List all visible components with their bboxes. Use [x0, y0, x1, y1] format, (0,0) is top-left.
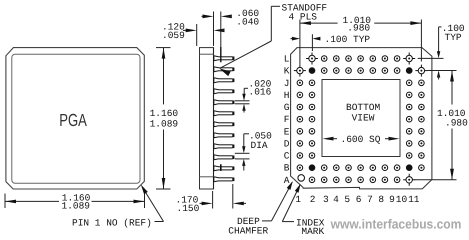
pin L9 — [394, 56, 400, 62]
pin5 bottom ext line — [235, 103, 250, 105]
arrow down to pin5 top — [242, 94, 245, 101]
svg-text:4 PLS: 4 PLS — [289, 12, 318, 23]
side view pin 6 — [214, 111, 235, 116]
pin K4 — [334, 68, 340, 74]
side view pin 2 — [214, 67, 235, 72]
side view pin 3 — [214, 78, 235, 83]
svg-text:.016: .016 — [249, 86, 272, 97]
pin F2 — [309, 116, 315, 122]
svg-text:9: 9 — [389, 194, 395, 205]
pin E1 — [297, 129, 303, 135]
seating tick on pin 11 — [220, 164, 222, 171]
pin L10 target — [403, 58, 415, 60]
top dim ext line right — [420, 20, 422, 62]
side view pin 12 — [214, 177, 235, 182]
svg-text:1.160: 1.160 — [150, 108, 179, 119]
ext line col2 — [311, 34, 313, 51]
pin F1 — [297, 116, 303, 122]
svg-text:D: D — [284, 138, 290, 149]
svg-text:B: B — [284, 163, 290, 174]
pin A2 — [309, 177, 315, 183]
svg-text:G: G — [284, 102, 290, 113]
pin C1 — [297, 153, 303, 159]
pin B4 — [334, 165, 340, 171]
pin10 top ext line — [235, 152, 250, 154]
svg-text:H: H — [284, 90, 290, 101]
right dim arrowheads — [450, 71, 454, 82]
pin K9 — [394, 68, 400, 74]
pin B9 — [394, 165, 400, 171]
svg-text:BOTTOM: BOTTOM — [346, 102, 381, 113]
pin D11 — [419, 141, 425, 147]
row A ext line — [415, 179, 457, 181]
pin L3 — [321, 56, 327, 62]
pin L4 — [334, 56, 340, 62]
pin1 leader horizontal seg — [155, 221, 164, 223]
vertical dimension line upper segment — [163, 48, 165, 105]
side view pin 7 — [214, 122, 235, 127]
pin K3 — [321, 68, 327, 74]
pin A1 index circle — [298, 175, 305, 182]
standoff leader bracket — [271, 5, 280, 7]
svg-text:2: 2 — [310, 194, 316, 205]
pin A3 — [321, 177, 327, 183]
pin B7 — [370, 165, 376, 171]
svg-text:7: 7 — [367, 194, 373, 205]
side view pin 10 — [214, 155, 235, 160]
ext line body right top — [213, 12, 215, 47]
row K ext line — [427, 70, 456, 72]
side view body top chamfer line — [200, 53, 214, 55]
top dim line — [300, 22, 338, 24]
pin B3 — [321, 165, 327, 171]
ext line pin tips — [232, 184, 234, 209]
svg-text:DIA: DIA — [251, 140, 268, 151]
pin G11 — [419, 104, 425, 110]
svg-text:F: F — [284, 114, 290, 125]
pin A10 target — [403, 179, 415, 181]
horizontal dim line right segment — [92, 200, 145, 202]
index mark arrowhead — [295, 184, 301, 193]
pin D10 — [406, 141, 412, 147]
pin B1 — [297, 165, 303, 171]
pin A9 — [394, 177, 400, 183]
pin B2 standoff — [309, 164, 316, 171]
pin K8 — [382, 68, 388, 74]
svg-text:1: 1 — [295, 194, 301, 205]
svg-text:10: 10 — [396, 194, 408, 205]
svg-text:1.089: 1.089 — [150, 118, 179, 129]
arrowhead up — [162, 48, 166, 59]
svg-text:K: K — [284, 66, 290, 77]
pin C11 — [419, 153, 425, 159]
svg-text:www.interfacebus.com: www.interfacebus.com — [330, 216, 462, 231]
standoff leader diagonal — [220, 41, 271, 68]
svg-text:PGA: PGA — [59, 110, 87, 130]
pin J10 — [406, 80, 412, 86]
svg-text:11: 11 — [408, 194, 420, 205]
svg-text:MARK: MARK — [301, 226, 324, 237]
dim .600 SQ arrows — [323, 137, 334, 141]
deep chamfer arrowhead — [287, 181, 293, 190]
pin L6 — [358, 56, 364, 62]
pin G2 — [309, 104, 315, 110]
pin K10 standoff — [406, 67, 413, 74]
svg-text:5: 5 — [344, 194, 350, 205]
pin K11 target — [415, 70, 427, 72]
pin L7 — [370, 56, 376, 62]
pin1 leader diagonal — [146, 193, 164, 222]
svg-text:A: A — [284, 175, 290, 186]
PGA package top view outer outline — [6, 48, 144, 189]
extension line top for vertical dim — [156, 47, 171, 49]
pin H2 — [309, 92, 315, 98]
pin L5 — [346, 56, 352, 62]
pin E10 — [406, 129, 412, 135]
arrow up to row K line — [437, 71, 440, 78]
svg-text:8: 8 — [378, 194, 384, 205]
svg-text:E: E — [284, 126, 290, 137]
pin L8 — [382, 56, 388, 62]
pin K2 standoff — [309, 67, 316, 74]
pin L2 target — [306, 58, 318, 60]
right dim line — [451, 71, 453, 105]
pin A8 — [382, 177, 388, 183]
svg-text:3: 3 — [323, 194, 329, 205]
top dim ext line left — [299, 20, 301, 65]
dim arrows .120/.059 — [183, 29, 188, 31]
side view pin 1 — [214, 56, 235, 61]
svg-text:L: L — [284, 54, 290, 65]
svg-text:VIEW: VIEW — [352, 113, 375, 124]
extension line right for horizontal dim — [144, 194, 146, 209]
svg-text:6: 6 — [356, 194, 362, 205]
pin K1 target — [294, 70, 306, 72]
arrowhead down — [162, 178, 166, 189]
ext line body bottom right — [212, 191, 214, 209]
arrow up to pin5 bottom — [242, 104, 245, 111]
PGA package top view inner outline — [12, 54, 140, 183]
svg-text:.980: .980 — [347, 23, 370, 34]
side view pin 11 — [214, 166, 235, 171]
pin C2 — [309, 153, 315, 159]
side view body outline — [200, 48, 214, 189]
pin G10 — [406, 104, 412, 110]
side view body bottom chamfer line — [200, 176, 214, 178]
pin F10 — [406, 116, 412, 122]
arrow down to row L line — [437, 51, 440, 58]
svg-text:.059: .059 — [162, 30, 185, 41]
horizontal dim line left segment — [5, 200, 59, 202]
bottom view cavity square — [322, 80, 400, 157]
standoff leader arrowhead — [219, 68, 230, 76]
dim arrows .170 — [200, 202, 203, 204]
pin H11 — [419, 92, 425, 98]
pin B5 — [346, 165, 352, 171]
pin B10 standoff — [406, 164, 413, 171]
svg-text:.980: .980 — [445, 117, 468, 128]
pin A4 — [334, 177, 340, 183]
side view pin 4 — [214, 89, 235, 94]
pin D2 — [309, 141, 315, 147]
pin B11 — [419, 165, 425, 171]
deep chamfer leader — [262, 220, 272, 222]
row L ext line — [418, 57, 444, 59]
ext line body left top — [196, 24, 198, 46]
pin J1 — [297, 80, 303, 86]
pin A5 — [346, 177, 352, 183]
pin H10 — [406, 92, 412, 98]
svg-text:1.089: 1.089 — [62, 201, 91, 212]
vertical dimension line lower segment — [163, 130, 165, 190]
pin K5 — [346, 68, 352, 74]
svg-text:.600 SQ: .600 SQ — [341, 134, 381, 145]
pin K6 — [358, 68, 364, 74]
arrow down to pin10 — [244, 133, 249, 135]
pin B8 — [382, 165, 388, 171]
side view pin 8 — [214, 133, 235, 138]
pin1 leader arrowhead — [141, 185, 148, 195]
pin E11 — [419, 129, 425, 135]
svg-text:.150: .150 — [177, 203, 200, 214]
pin F11 — [419, 116, 425, 122]
svg-text:CHAMFER: CHAMFER — [228, 226, 268, 237]
pin A6 — [358, 177, 364, 183]
pin H1 — [297, 92, 303, 98]
index mark leader — [282, 221, 294, 223]
svg-text:C: C — [284, 151, 290, 162]
svg-text:J: J — [284, 78, 290, 89]
pin E2 — [309, 129, 315, 135]
dim arrows .100 TYP — [292, 37, 300, 41]
pin10 bottom ext line — [235, 158, 250, 160]
pin C10 — [406, 153, 412, 159]
arrowhead right — [134, 200, 145, 204]
ext line standoff plane — [220, 12, 222, 48]
side view pin 5 — [214, 100, 235, 105]
svg-text:.100 TYP: .100 TYP — [325, 34, 371, 45]
top dim arrowheads — [300, 21, 311, 25]
svg-text:PIN 1 NO (REF): PIN 1 NO (REF) — [72, 218, 152, 229]
pin G1 — [297, 104, 303, 110]
pin B6 — [358, 165, 364, 171]
svg-text:TYP: TYP — [445, 32, 462, 43]
extension line bottom for vertical dim — [156, 188, 171, 190]
pin5 top ext line — [235, 100, 250, 102]
dim arrows .060/.040 — [202, 15, 206, 17]
side view body right face emphasis — [213, 48, 215, 189]
pin J2 — [309, 80, 315, 86]
svg-text:.040: .040 — [236, 17, 259, 28]
leader bracket .016 — [244, 87, 248, 89]
side view pin 9 — [214, 144, 235, 149]
arrow up to pin10 bottom — [242, 159, 245, 166]
pin A7 — [370, 177, 376, 183]
pin D1 — [297, 141, 303, 147]
arrowhead left — [5, 200, 16, 204]
extension line left for horizontal dim — [4, 194, 6, 209]
bottom view outline — [291, 48, 432, 189]
pin J11 — [419, 80, 425, 86]
svg-text:4: 4 — [333, 194, 339, 205]
leader .100 tr — [439, 26, 442, 28]
pin K7 — [370, 68, 376, 74]
